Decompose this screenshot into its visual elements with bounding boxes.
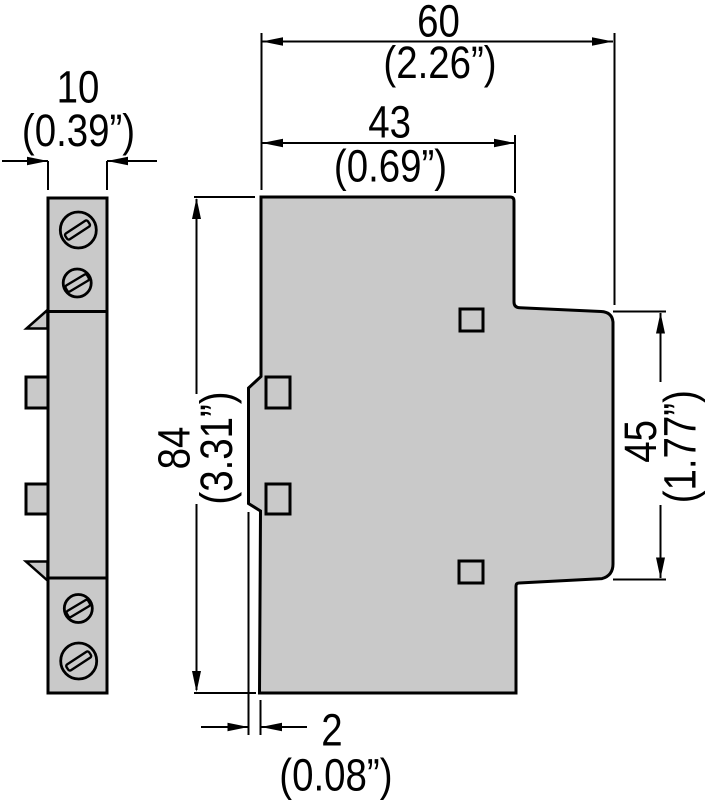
square hole A — [266, 377, 290, 408]
ext line left — [248, 512, 250, 735]
dim line lower segment — [660, 505, 662, 578]
top tick — [194, 196, 255, 198]
front-view body outline — [249, 197, 614, 693]
svg-text:(0.39”): (0.39”) — [22, 105, 135, 156]
dim line — [262, 142, 515, 144]
svg-text:(2.26”): (2.26”) — [383, 37, 496, 88]
side-view body — [48, 198, 107, 693]
arrow up — [192, 198, 201, 219]
screw S1 — [60, 212, 96, 248]
top tick — [613, 311, 666, 313]
square hole B — [266, 484, 290, 514]
arrow left (points right) — [27, 157, 48, 166]
arrow left (points right) — [228, 723, 249, 732]
ext line left — [47, 161, 49, 190]
ext line right — [614, 33, 616, 305]
arrow down — [656, 558, 665, 579]
arrow right (points left) — [261, 723, 282, 732]
dim line upper segment — [196, 199, 198, 394]
side tab 2 — [26, 484, 48, 514]
arrow right — [494, 139, 515, 148]
tail right — [107, 160, 157, 162]
dim line — [262, 41, 613, 43]
dim line upper segment — [660, 313, 662, 382]
dim line lower segment — [196, 504, 198, 690]
arrow down — [192, 671, 201, 692]
tail left — [201, 726, 249, 728]
bottom tick — [613, 579, 666, 581]
top mounting triangle — [27, 310, 48, 329]
terminal block divider top — [48, 310, 107, 313]
screw S4 — [61, 643, 97, 679]
ext line right — [514, 135, 516, 193]
arrow up — [656, 313, 665, 334]
svg-text:2: 2 — [321, 704, 342, 755]
tail left — [2, 160, 48, 162]
square hole D — [459, 561, 483, 583]
tail right — [261, 726, 307, 728]
terminal block divider bottom — [48, 577, 107, 580]
side tab 1 — [26, 377, 48, 408]
screw S2 — [63, 269, 91, 297]
svg-text:(0.69”): (0.69”) — [334, 140, 447, 191]
bottom tick — [194, 692, 256, 694]
svg-text:(3.31”): (3.31”) — [191, 391, 242, 504]
ext line left — [261, 33, 263, 190]
ext line right — [260, 700, 262, 735]
svg-text:(0.08”): (0.08”) — [279, 749, 392, 800]
bottom mounting triangle — [26, 562, 48, 581]
square hole C — [460, 309, 483, 331]
ext line right — [106, 161, 108, 190]
arrow left — [262, 139, 283, 148]
arrow left — [262, 37, 283, 46]
arrow right — [592, 37, 613, 46]
svg-text:(1.77”): (1.77”) — [654, 390, 705, 503]
arrow right (points left) — [107, 157, 128, 166]
screw S3 — [64, 595, 92, 623]
